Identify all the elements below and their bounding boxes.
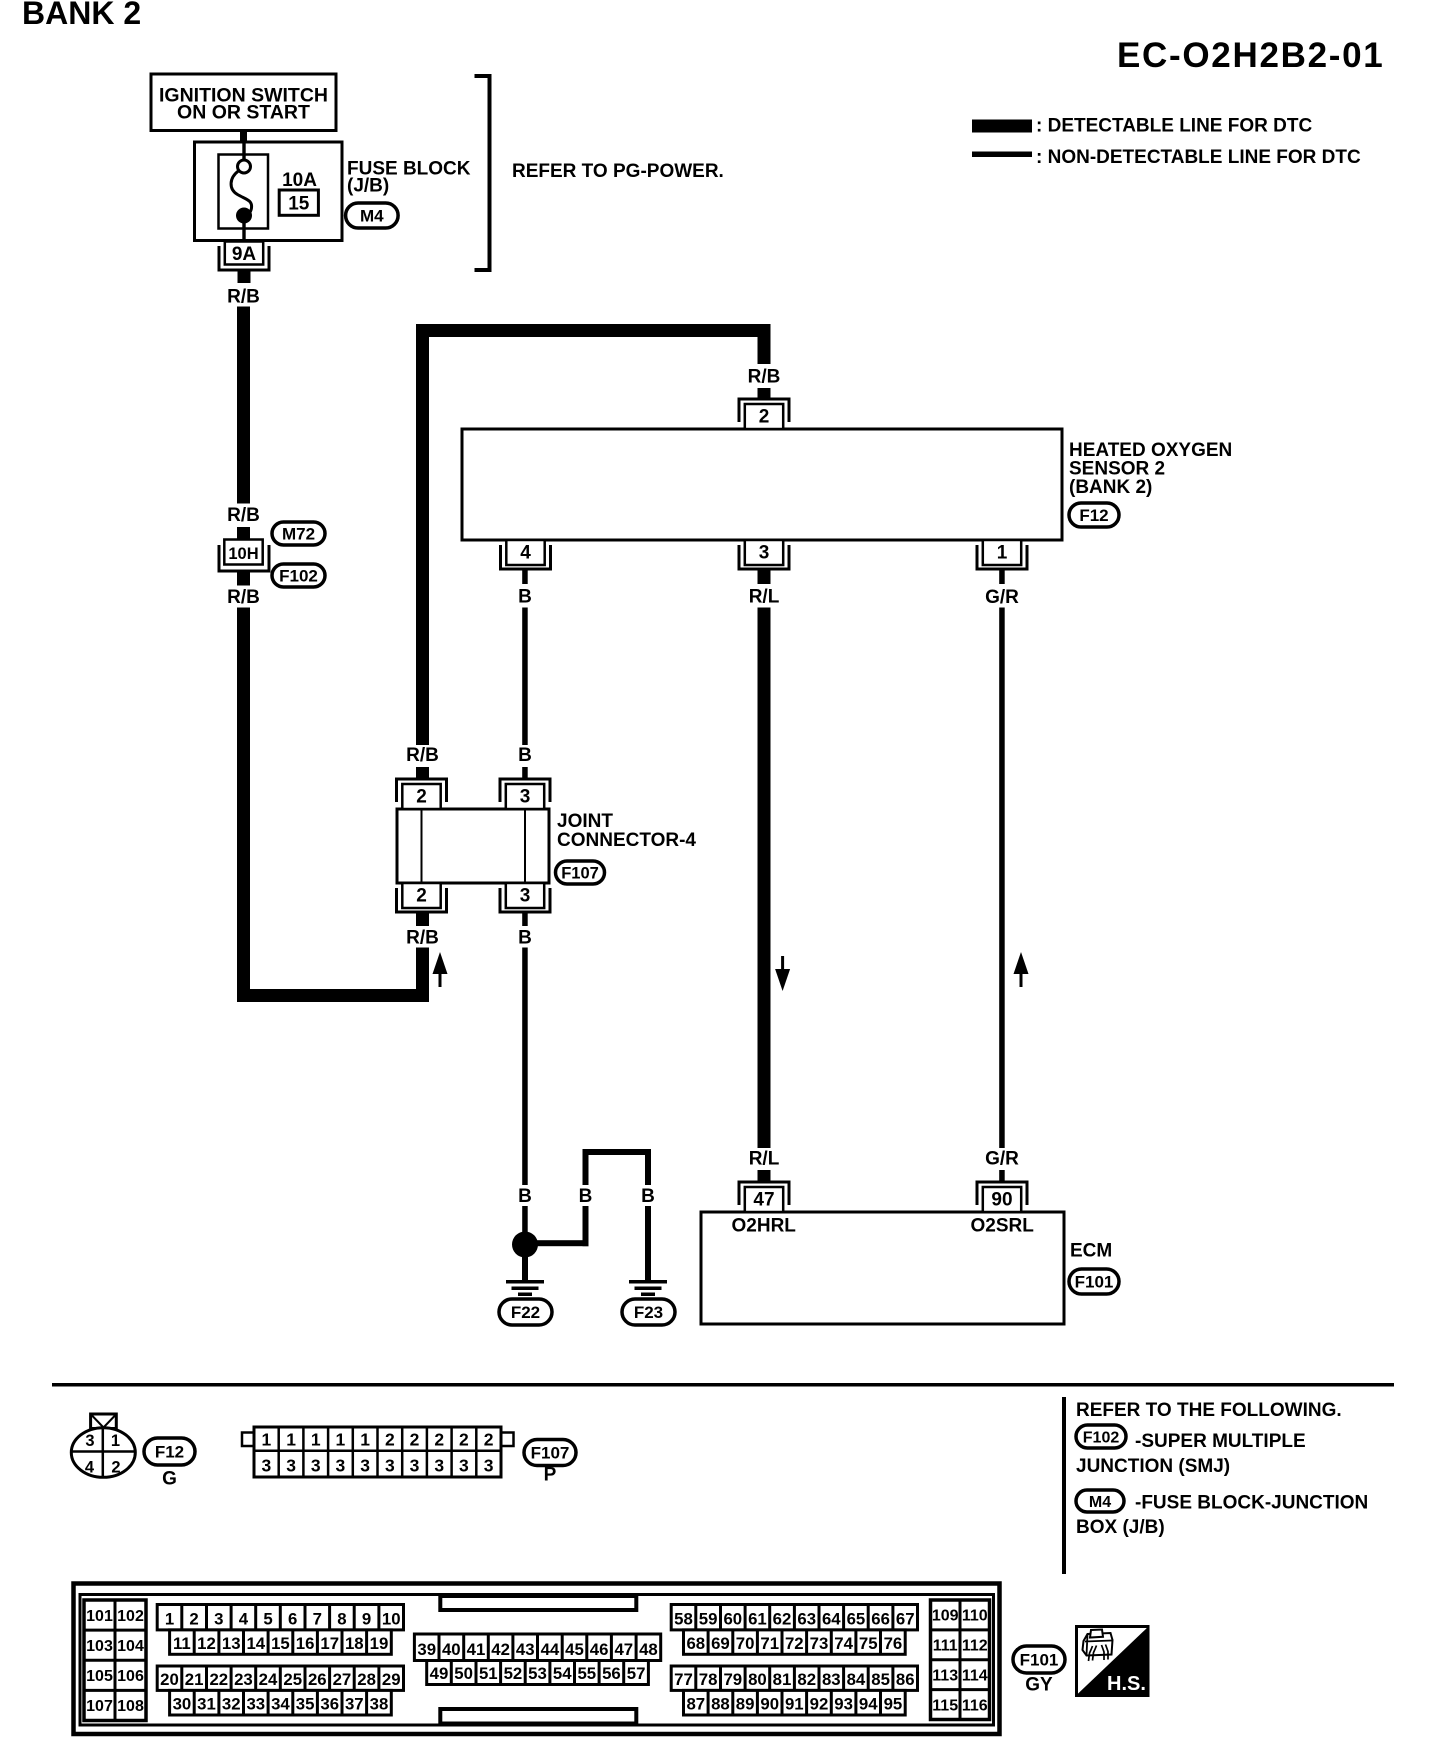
pin block 109-116 bbox=[931, 1600, 990, 1720]
wire stub into joint pin 3 bbox=[522, 767, 528, 779]
pin rows 39-57 bbox=[414, 1634, 660, 1685]
joint connector bottom pin 3 bbox=[500, 883, 550, 912]
svg-text:8: 8 bbox=[337, 1609, 346, 1628]
svg-text:1: 1 bbox=[336, 1430, 346, 1450]
svg-text:102: 102 bbox=[117, 1608, 144, 1625]
svg-text:R/L: R/L bbox=[749, 587, 780, 608]
connector ref F101 bbox=[1069, 1269, 1119, 1294]
svg-text:2: 2 bbox=[416, 886, 427, 907]
wire stub below 10H bbox=[237, 571, 250, 586]
ECM connector F101 outer frame bbox=[74, 1584, 1000, 1735]
svg-text:3: 3 bbox=[520, 787, 531, 808]
wire middle branch vertical upper bbox=[583, 1155, 589, 1185]
svg-text:R/B: R/B bbox=[406, 928, 439, 949]
svg-text:82: 82 bbox=[797, 1670, 816, 1689]
svg-text:103: 103 bbox=[86, 1638, 113, 1655]
label REFER TO PG-POWER. bbox=[512, 161, 724, 182]
svg-text:116: 116 bbox=[962, 1697, 988, 1714]
ref F102 super multiple junction bbox=[1076, 1425, 1306, 1477]
svg-text:2: 2 bbox=[434, 1430, 444, 1450]
svg-text:63: 63 bbox=[797, 1609, 816, 1628]
joint connector bottom pin 2 bbox=[397, 883, 447, 912]
svg-text:106: 106 bbox=[117, 1668, 144, 1685]
wire B down to joint connector bbox=[522, 608, 528, 746]
svg-text:3: 3 bbox=[459, 1456, 469, 1476]
joint connector top pin 3 bbox=[500, 779, 550, 809]
svg-text:110: 110 bbox=[962, 1608, 988, 1625]
bracket refer to PG-POWER bbox=[475, 76, 490, 270]
connector ref F107 bottom bbox=[524, 1440, 576, 1466]
svg-text:24: 24 bbox=[259, 1670, 278, 1689]
connector ref F107 bbox=[556, 861, 605, 884]
wire from junction to middle branch bbox=[525, 1240, 589, 1246]
wire top link horizontal bbox=[583, 1149, 652, 1155]
ref M4 fuse block junction box bbox=[1076, 1490, 1368, 1538]
wire label B above joint pin 3 bbox=[518, 745, 532, 766]
svg-text:92: 92 bbox=[810, 1695, 829, 1714]
wire right branch vertical upper bbox=[645, 1155, 651, 1185]
svg-text:F12: F12 bbox=[155, 1443, 184, 1462]
svg-text:R/B: R/B bbox=[406, 745, 439, 766]
svg-text:O2HRL: O2HRL bbox=[732, 1216, 797, 1237]
svg-text:47: 47 bbox=[614, 1640, 633, 1659]
ECM box bbox=[701, 1212, 1064, 1324]
svg-text:89: 89 bbox=[736, 1695, 755, 1714]
wire label B below joint pin 3 bbox=[518, 928, 532, 949]
ground ref F22 bbox=[499, 1299, 552, 1325]
svg-text:B: B bbox=[518, 1186, 532, 1207]
legend detectable line for DTC bbox=[972, 116, 1312, 137]
svg-text:70: 70 bbox=[736, 1634, 755, 1653]
svg-text:49: 49 bbox=[430, 1664, 449, 1683]
ground symbol F22 bbox=[506, 1280, 544, 1296]
svg-text:90: 90 bbox=[991, 1190, 1012, 1211]
svg-text:7: 7 bbox=[313, 1609, 322, 1628]
svg-text:(BANK 2): (BANK 2) bbox=[1069, 477, 1152, 498]
svg-text:64: 64 bbox=[822, 1609, 841, 1628]
pin rows 77-95 bbox=[671, 1666, 917, 1715]
svg-text:58: 58 bbox=[674, 1609, 693, 1628]
svg-text:2: 2 bbox=[484, 1430, 494, 1450]
svg-text:25: 25 bbox=[283, 1670, 302, 1689]
svg-text:F22: F22 bbox=[511, 1303, 540, 1322]
wire label B above ground junction bbox=[518, 1186, 532, 1207]
ground ref F23 bbox=[622, 1299, 675, 1325]
svg-text:REFER TO THE FOLLOWING.: REFER TO THE FOLLOWING. bbox=[1076, 1400, 1342, 1421]
svg-text:33: 33 bbox=[246, 1695, 265, 1714]
color code P bbox=[544, 1465, 557, 1486]
ECM pin 47 bbox=[739, 1182, 789, 1212]
wire stub below HO2S pin 1 bbox=[999, 569, 1005, 584]
svg-text:79: 79 bbox=[723, 1670, 742, 1689]
pin block 101-108 bbox=[84, 1600, 146, 1721]
svg-text:76: 76 bbox=[884, 1634, 903, 1653]
svg-text:54: 54 bbox=[553, 1664, 572, 1683]
svg-text:2: 2 bbox=[385, 1430, 395, 1450]
svg-text:9: 9 bbox=[362, 1609, 371, 1628]
svg-text:115: 115 bbox=[932, 1697, 958, 1714]
svg-text:: NON-DETECTABLE LINE FOR DTC: : NON-DETECTABLE LINE FOR DTC bbox=[1036, 147, 1361, 168]
svg-text:R/B: R/B bbox=[227, 287, 260, 308]
svg-text:3: 3 bbox=[520, 886, 531, 907]
wire stub junction to ground F22 bbox=[522, 1257, 528, 1280]
fuse 15 symbol bbox=[219, 144, 269, 244]
wire stub into joint pin 2 bbox=[416, 767, 429, 779]
color code G bbox=[162, 1469, 177, 1490]
HO2S pin 4 bbox=[501, 540, 551, 569]
svg-text:R/B: R/B bbox=[227, 505, 260, 526]
svg-text:3: 3 bbox=[385, 1456, 395, 1476]
arrow up on R/B wire bbox=[433, 952, 448, 987]
svg-text:55: 55 bbox=[577, 1664, 596, 1683]
label JOINT CONNECTOR-4 bbox=[557, 811, 696, 851]
wire stub below 9A bbox=[238, 271, 251, 284]
svg-text:2: 2 bbox=[416, 787, 427, 808]
svg-text:62: 62 bbox=[773, 1609, 792, 1628]
svg-text:108: 108 bbox=[117, 1698, 144, 1715]
svg-text:53: 53 bbox=[528, 1664, 547, 1683]
svg-text:87: 87 bbox=[686, 1695, 705, 1714]
svg-text:112: 112 bbox=[962, 1638, 988, 1655]
wire stub into HO2S pin 2 bbox=[758, 388, 771, 400]
top notch bbox=[440, 1596, 636, 1610]
svg-text:31: 31 bbox=[197, 1695, 216, 1714]
svg-text:BANK 2: BANK 2 bbox=[22, 0, 141, 31]
svg-text:2: 2 bbox=[189, 1609, 198, 1628]
wire stub below joint pin 2 bbox=[416, 912, 429, 926]
svg-text:10A: 10A bbox=[282, 170, 317, 191]
pin rows 58-76 bbox=[671, 1605, 917, 1655]
wire label B below pin 4 bbox=[518, 587, 532, 608]
connector ref M4 bbox=[346, 203, 399, 228]
svg-text:23: 23 bbox=[234, 1670, 253, 1689]
wire right branch vertical lower bbox=[645, 1206, 651, 1280]
svg-text:66: 66 bbox=[871, 1609, 890, 1628]
svg-text:29: 29 bbox=[382, 1670, 401, 1689]
wire label R/B below joint pin 2 bbox=[406, 928, 439, 949]
svg-text:2: 2 bbox=[759, 407, 770, 428]
svg-text:105: 105 bbox=[86, 1668, 113, 1685]
svg-text:2: 2 bbox=[459, 1430, 469, 1450]
svg-text:88: 88 bbox=[711, 1695, 730, 1714]
svg-text:3: 3 bbox=[286, 1456, 296, 1476]
svg-text:R/L: R/L bbox=[749, 1149, 780, 1170]
svg-text:F101: F101 bbox=[1075, 1273, 1114, 1292]
svg-text:111: 111 bbox=[933, 1638, 958, 1655]
svg-text:83: 83 bbox=[822, 1670, 841, 1689]
ECM terminal name O2HRL bbox=[732, 1216, 797, 1237]
wire stub below joint pin 3 bbox=[522, 912, 528, 926]
svg-text:F12: F12 bbox=[1079, 506, 1108, 525]
svg-text:6: 6 bbox=[288, 1609, 297, 1628]
wire R/B bottom horizontal run bbox=[237, 989, 429, 1002]
svg-text:3: 3 bbox=[214, 1609, 223, 1628]
svg-text:69: 69 bbox=[711, 1634, 730, 1653]
ECM terminal name O2SRL bbox=[971, 1216, 1035, 1237]
svg-text:4: 4 bbox=[85, 1459, 95, 1477]
svg-text:32: 32 bbox=[222, 1695, 241, 1714]
svg-text:73: 73 bbox=[810, 1634, 829, 1653]
arrow up on G/R wire bbox=[1014, 952, 1029, 987]
svg-text:: DETECTABLE LINE FOR DTC: : DETECTABLE LINE FOR DTC bbox=[1036, 116, 1312, 137]
wire B into junction dot bbox=[522, 1206, 528, 1238]
svg-text:51: 51 bbox=[479, 1664, 498, 1683]
heated oxygen sensor 2 box bbox=[462, 429, 1062, 540]
svg-text:90: 90 bbox=[760, 1695, 779, 1714]
svg-text:95: 95 bbox=[884, 1695, 903, 1714]
wire stub below HO2S pin 4 bbox=[522, 569, 528, 584]
svg-text:101: 101 bbox=[86, 1608, 113, 1625]
svg-text:80: 80 bbox=[748, 1670, 767, 1689]
wire stub above 10H bbox=[237, 527, 250, 540]
svg-text:74: 74 bbox=[834, 1634, 853, 1653]
svg-text:12: 12 bbox=[197, 1634, 216, 1653]
svg-text:75: 75 bbox=[859, 1634, 878, 1653]
wire R/B drop to HO2S pin 2 bbox=[758, 337, 771, 364]
ECM pin 90 bbox=[977, 1182, 1027, 1212]
svg-text:21: 21 bbox=[185, 1670, 204, 1689]
svg-text:2: 2 bbox=[410, 1430, 420, 1450]
svg-text:3: 3 bbox=[434, 1456, 444, 1476]
svg-text:34: 34 bbox=[271, 1695, 290, 1714]
svg-text:G/R: G/R bbox=[985, 1149, 1019, 1170]
svg-text:14: 14 bbox=[246, 1634, 265, 1653]
svg-text:F101: F101 bbox=[1020, 1651, 1059, 1670]
wire B down to ground junction bbox=[522, 948, 528, 1186]
svg-text:93: 93 bbox=[834, 1695, 853, 1714]
connector ref F12 bottom bbox=[144, 1438, 195, 1465]
svg-text:F23: F23 bbox=[634, 1303, 663, 1322]
svg-text:11: 11 bbox=[173, 1634, 191, 1653]
arrow down on R/L wire bbox=[775, 956, 790, 991]
svg-text:4: 4 bbox=[520, 543, 531, 564]
svg-text:65: 65 bbox=[847, 1609, 866, 1628]
svg-text:3: 3 bbox=[484, 1456, 494, 1476]
svg-text:1: 1 bbox=[286, 1430, 296, 1450]
ignition switch box bbox=[151, 74, 336, 131]
svg-text:1: 1 bbox=[311, 1430, 321, 1450]
svg-text:G/R: G/R bbox=[985, 587, 1019, 608]
svg-text:45: 45 bbox=[565, 1640, 584, 1659]
svg-text:59: 59 bbox=[699, 1609, 718, 1628]
svg-text:4: 4 bbox=[239, 1609, 249, 1628]
svg-text:20: 20 bbox=[160, 1670, 179, 1689]
svg-text:ECM: ECM bbox=[1070, 1241, 1112, 1262]
svg-text:3: 3 bbox=[759, 543, 770, 564]
svg-text:47: 47 bbox=[753, 1190, 774, 1211]
svg-text:M4: M4 bbox=[1089, 1494, 1111, 1511]
svg-text:91: 91 bbox=[785, 1695, 804, 1714]
svg-text:81: 81 bbox=[773, 1670, 792, 1689]
svg-text:P: P bbox=[544, 1465, 557, 1486]
svg-text:(J/B): (J/B) bbox=[347, 176, 389, 197]
svg-text:3: 3 bbox=[360, 1456, 370, 1476]
connector face F12 round bbox=[71, 1414, 135, 1477]
wire label R/B above HO2S pin 2 bbox=[748, 367, 781, 388]
title BANK 2 bbox=[22, 0, 141, 31]
wire label G/R above ECM pin 90 bbox=[985, 1149, 1019, 1170]
svg-text:43: 43 bbox=[516, 1640, 535, 1659]
svg-text:52: 52 bbox=[504, 1664, 523, 1683]
svg-text:104: 104 bbox=[117, 1638, 144, 1655]
fuse rating 10A bbox=[282, 170, 317, 191]
svg-text:1: 1 bbox=[165, 1609, 174, 1628]
svg-text:-SUPER MULTIPLE: -SUPER MULTIPLE bbox=[1135, 1431, 1306, 1452]
svg-text:B: B bbox=[579, 1186, 593, 1207]
bottom notch bbox=[440, 1709, 636, 1724]
svg-text:3: 3 bbox=[336, 1456, 346, 1476]
wire G/R down to ECM bbox=[999, 608, 1005, 1149]
H.S. view logo bbox=[1076, 1627, 1149, 1696]
wire R/B from fuse down to SMJ 10H bbox=[237, 307, 250, 504]
svg-text:B: B bbox=[518, 745, 532, 766]
wire label R/B below 9A bbox=[227, 287, 260, 308]
svg-text:B: B bbox=[518, 928, 532, 949]
svg-text:15: 15 bbox=[288, 194, 310, 215]
svg-text:39: 39 bbox=[417, 1640, 436, 1659]
svg-text:44: 44 bbox=[541, 1640, 560, 1659]
svg-text:9A: 9A bbox=[232, 244, 257, 265]
fuse block box M4 bbox=[195, 142, 343, 241]
svg-text:15: 15 bbox=[271, 1634, 290, 1653]
svg-text:1: 1 bbox=[111, 1432, 120, 1450]
svg-text:EC-O2H2B2-01: EC-O2H2B2-01 bbox=[1117, 36, 1384, 75]
svg-text:86: 86 bbox=[896, 1670, 915, 1689]
svg-text:16: 16 bbox=[296, 1634, 315, 1653]
svg-text:H.S.: H.S. bbox=[1107, 1673, 1146, 1695]
svg-text:17: 17 bbox=[320, 1634, 339, 1653]
svg-text:107: 107 bbox=[86, 1698, 113, 1715]
svg-text:1: 1 bbox=[360, 1430, 370, 1450]
svg-text:3: 3 bbox=[410, 1456, 420, 1476]
svg-text:M4: M4 bbox=[360, 207, 384, 226]
svg-text:B: B bbox=[641, 1186, 655, 1207]
svg-text:BOX (J/B): BOX (J/B) bbox=[1076, 1517, 1165, 1538]
HO2S pin 3 bbox=[739, 540, 789, 569]
svg-text:37: 37 bbox=[345, 1695, 364, 1714]
wire R/B long left vertical run bbox=[237, 608, 250, 1003]
label HEATED OXYGEN SENSOR 2 (BANK 2) bbox=[1069, 440, 1232, 498]
SMJ connector 10H bbox=[219, 540, 269, 572]
svg-text:109: 109 bbox=[932, 1608, 959, 1625]
ground symbol F23 bbox=[629, 1280, 667, 1296]
svg-text:22: 22 bbox=[209, 1670, 228, 1689]
wire middle branch vertical lower bbox=[583, 1206, 589, 1246]
svg-text:46: 46 bbox=[590, 1640, 609, 1659]
svg-text:113: 113 bbox=[932, 1667, 958, 1684]
svg-text:42: 42 bbox=[491, 1640, 510, 1659]
svg-text:60: 60 bbox=[723, 1609, 742, 1628]
svg-text:18: 18 bbox=[345, 1634, 364, 1653]
svg-text:35: 35 bbox=[296, 1695, 315, 1714]
wire R/B top horizontal run bbox=[416, 324, 771, 337]
fuse number 15 box bbox=[279, 190, 318, 215]
svg-text:94: 94 bbox=[859, 1695, 878, 1714]
wire label R/L above ECM pin 47 bbox=[749, 1149, 780, 1170]
separator vertical line bbox=[1062, 1397, 1066, 1574]
svg-text:CONNECTOR-4: CONNECTOR-4 bbox=[557, 830, 696, 851]
svg-text:40: 40 bbox=[442, 1640, 461, 1659]
connector 9A on fuse block bbox=[219, 242, 269, 271]
svg-text:-FUSE BLOCK-JUNCTION: -FUSE BLOCK-JUNCTION bbox=[1135, 1493, 1368, 1514]
svg-text:85: 85 bbox=[871, 1670, 890, 1689]
connector face F107 bbox=[242, 1427, 514, 1477]
connector ref F12 bbox=[1069, 503, 1119, 527]
svg-text:G: G bbox=[162, 1469, 177, 1490]
wire R/B vertical run to joint connector bbox=[416, 337, 429, 745]
svg-text:3: 3 bbox=[262, 1456, 272, 1476]
svg-text:26: 26 bbox=[308, 1670, 327, 1689]
joint connector top pin 2 bbox=[397, 779, 447, 809]
svg-text:ON OR START: ON OR START bbox=[177, 102, 310, 124]
svg-text:F107: F107 bbox=[561, 864, 599, 882]
svg-text:3: 3 bbox=[311, 1456, 321, 1476]
wire stub below HO2S pin 3 bbox=[758, 569, 771, 584]
diagram code EC-O2H2B2-01 bbox=[1117, 36, 1384, 75]
pin rows 20-38 bbox=[157, 1666, 403, 1715]
wire label R/B above joint pin 2 bbox=[406, 745, 439, 766]
svg-text:30: 30 bbox=[173, 1695, 192, 1714]
svg-text:77: 77 bbox=[674, 1670, 693, 1689]
svg-text:10: 10 bbox=[382, 1609, 401, 1628]
svg-text:48: 48 bbox=[639, 1640, 658, 1659]
wire stub ignition to fuse block bbox=[240, 131, 247, 143]
svg-text:R/B: R/B bbox=[227, 587, 260, 608]
svg-text:13: 13 bbox=[222, 1634, 241, 1653]
svg-text:67: 67 bbox=[896, 1609, 915, 1628]
svg-text:71: 71 bbox=[760, 1634, 779, 1653]
connector ref F102 bbox=[272, 564, 325, 587]
svg-text:68: 68 bbox=[686, 1634, 705, 1653]
svg-text:JUNCTION (SMJ): JUNCTION (SMJ) bbox=[1076, 1456, 1230, 1477]
label ECM bbox=[1070, 1241, 1112, 1262]
svg-text:19: 19 bbox=[370, 1634, 389, 1653]
svg-text:38: 38 bbox=[370, 1695, 389, 1714]
svg-text:O2SRL: O2SRL bbox=[971, 1216, 1035, 1237]
svg-text:28: 28 bbox=[357, 1670, 376, 1689]
svg-text:36: 36 bbox=[320, 1695, 339, 1714]
svg-text:2: 2 bbox=[111, 1459, 120, 1477]
label REFER TO THE FOLLOWING. bbox=[1076, 1400, 1342, 1421]
HO2S pin 2 bbox=[739, 399, 789, 429]
legend non-detectable line for DTC bbox=[972, 147, 1361, 168]
svg-text:GY: GY bbox=[1025, 1675, 1053, 1696]
wire R/L down to ECM bbox=[758, 608, 771, 1149]
svg-text:27: 27 bbox=[333, 1670, 352, 1689]
svg-text:61: 61 bbox=[748, 1609, 767, 1628]
svg-text:1: 1 bbox=[997, 543, 1008, 564]
svg-text:REFER TO PG-POWER.: REFER TO PG-POWER. bbox=[512, 161, 724, 182]
svg-text:57: 57 bbox=[627, 1664, 646, 1683]
HO2S pin 1 bbox=[977, 540, 1027, 569]
svg-text:F102: F102 bbox=[279, 567, 318, 586]
wire R/B to bottom corner bbox=[416, 948, 429, 1003]
svg-text:1: 1 bbox=[262, 1430, 272, 1450]
pin rows 1-19 bbox=[157, 1605, 403, 1655]
joint connector-4 box bbox=[397, 809, 549, 883]
separator horizontal line bbox=[52, 1383, 1394, 1387]
wire label B middle branch bbox=[579, 1186, 593, 1207]
svg-text:JOINT: JOINT bbox=[557, 811, 613, 832]
junction dot bbox=[512, 1232, 538, 1258]
svg-text:56: 56 bbox=[602, 1664, 621, 1683]
svg-text:10H: 10H bbox=[228, 545, 258, 563]
wire stub into ECM pin 90 bbox=[999, 1170, 1005, 1182]
svg-text:41: 41 bbox=[467, 1640, 486, 1659]
connector ref F101 bottom bbox=[1013, 1646, 1065, 1673]
color code GY bbox=[1025, 1675, 1053, 1696]
wire label G/R below pin 1 bbox=[985, 587, 1019, 608]
